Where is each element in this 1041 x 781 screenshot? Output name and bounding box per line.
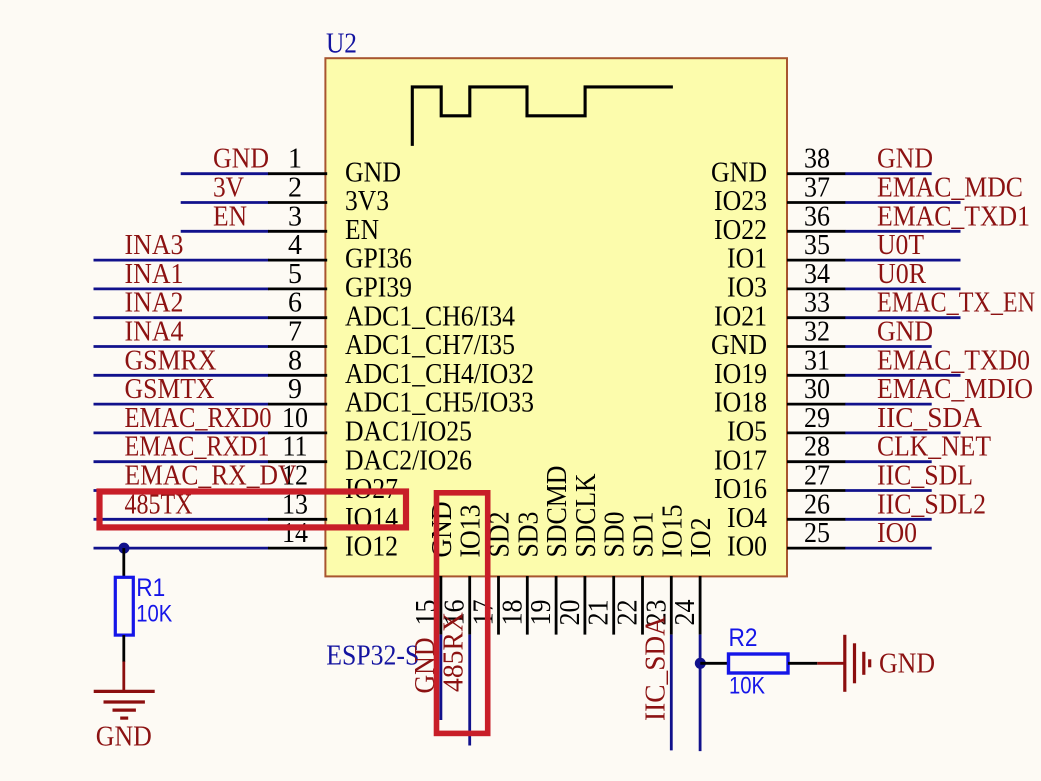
svg-text:ADC1_CH5/IO33: ADC1_CH5/IO33	[345, 388, 534, 419]
highlight box around 485TX / pin13 / IO14	[100, 492, 407, 528]
svg-text:IIC_SDL2: IIC_SDL2	[877, 489, 986, 520]
pin 32 stub	[787, 345, 846, 348]
pin 6 stub	[268, 316, 327, 319]
svg-text:EMAC_TXD0: EMAC_TXD0	[877, 345, 1030, 376]
pin 20 stub	[584, 576, 587, 635]
wire net EMAC_RXD1 (left pin 11)	[94, 460, 269, 463]
svg-text:SDCLK: SDCLK	[571, 474, 602, 558]
wire net EMAC_MDIO (right pin 30)	[845, 403, 931, 406]
svg-text:27: 27	[804, 461, 830, 492]
svg-text:IO0: IO0	[877, 518, 917, 549]
svg-text:IIC_SDA: IIC_SDA	[877, 403, 983, 434]
svg-text:SDCMD: SDCMD	[542, 466, 573, 558]
pin 22 stub	[641, 576, 644, 635]
svg-text:GPI36: GPI36	[345, 244, 412, 275]
wire net EMAC_TXD1 (right pin 36)	[845, 230, 960, 233]
svg-text:14: 14	[282, 518, 308, 549]
pin 23 stub	[670, 576, 673, 635]
wire net GSMRX (left pin 8)	[94, 374, 269, 377]
svg-text:IO19: IO19	[714, 359, 767, 390]
svg-text:SD0: SD0	[600, 512, 631, 558]
svg-text:10K: 10K	[729, 672, 765, 699]
svg-text:IO18: IO18	[714, 388, 767, 419]
pin 18 stub	[526, 576, 529, 635]
wire net 485TX (left pin 13)	[94, 518, 269, 521]
svg-text:31: 31	[804, 345, 830, 376]
svg-text:DAC2/IO26: DAC2/IO26	[345, 445, 472, 476]
wire R1 to ground	[122, 635, 125, 662]
svg-text:GSMTX: GSMTX	[125, 374, 215, 405]
wire net GSMTX (left pin 9)	[94, 403, 269, 406]
svg-text:36: 36	[804, 201, 830, 232]
svg-text:GND: GND	[877, 317, 933, 348]
pin 31 stub	[787, 374, 846, 377]
svg-text:GPI39: GPI39	[345, 273, 412, 304]
wire net pin14 pull-down (left pin 14)	[94, 547, 269, 550]
wire net U0T (right pin 35)	[845, 259, 960, 262]
wire net CLK_NET (right pin 28)	[845, 460, 931, 463]
svg-text:35: 35	[804, 230, 830, 261]
svg-text:33: 33	[804, 288, 830, 319]
pin 35 stub	[787, 259, 846, 262]
pin 15 stub	[439, 576, 442, 635]
svg-text:IO23: IO23	[714, 186, 767, 217]
pin 30 stub	[787, 403, 846, 406]
wire net GND (right pin 32)	[845, 345, 931, 348]
pin 2 stub	[268, 201, 327, 204]
wire (bottom pin 24)	[699, 635, 702, 752]
svg-text:IO0: IO0	[727, 532, 767, 563]
svg-text:EMAC_RXD1: EMAC_RXD1	[125, 432, 270, 463]
svg-text:IO21: IO21	[714, 301, 767, 332]
resistor R2	[729, 654, 789, 673]
svg-text:GND: GND	[711, 157, 767, 188]
svg-text:IO4: IO4	[727, 503, 767, 534]
svg-text:EMAC_MDC: EMAC_MDC	[877, 173, 1023, 204]
svg-text:IO5: IO5	[727, 417, 767, 448]
svg-text:ADC1_CH6/I34: ADC1_CH6/I34	[345, 301, 515, 332]
svg-text:4: 4	[288, 230, 302, 261]
svg-text:GSMRX: GSMRX	[125, 345, 217, 376]
svg-text:EMAC_TX_EN: EMAC_TX_EN	[877, 288, 1035, 319]
svg-text:20: 20	[555, 600, 586, 626]
svg-text:IO16: IO16	[714, 474, 767, 505]
pin 9 stub	[268, 403, 327, 406]
svg-text:2: 2	[288, 173, 302, 204]
pin 27 stub	[787, 489, 846, 492]
svg-text:DAC1/IO25: DAC1/IO25	[345, 417, 472, 448]
wire ground lead right (dark red)	[817, 662, 845, 665]
svg-text:IO15: IO15	[657, 505, 688, 558]
wire net INA2 (left pin 6)	[94, 316, 269, 319]
svg-text:U2: U2	[326, 29, 357, 60]
wire net GND (left pin 1)	[181, 172, 269, 175]
wire net GND (right pin 38)	[845, 172, 931, 175]
svg-text:R2: R2	[729, 624, 758, 652]
wire junction to R1	[122, 548, 125, 578]
svg-text:21: 21	[584, 600, 615, 626]
svg-text:ADC1_CH7/I35: ADC1_CH7/I35	[345, 330, 515, 361]
wire net EN (left pin 3)	[181, 230, 269, 233]
svg-text:10: 10	[282, 403, 308, 434]
svg-text:10K: 10K	[136, 601, 172, 628]
svg-text:485RX: 485RX	[439, 612, 470, 692]
svg-text:EMAC_RX_DV: EMAC_RX_DV	[125, 461, 297, 492]
svg-text:U0R: U0R	[877, 259, 926, 290]
pin 13 stub	[268, 518, 327, 521]
pin 24 stub	[699, 576, 702, 635]
svg-text:19: 19	[526, 600, 557, 626]
pin 1 stub	[268, 172, 327, 175]
svg-text:IO3: IO3	[727, 273, 767, 304]
wire net IIC_SDL2 (right pin 26)	[845, 518, 931, 521]
pin 17 stub	[497, 576, 500, 635]
pin 8 stub	[268, 374, 327, 377]
svg-text:EN: EN	[345, 215, 379, 246]
pin 26 stub	[787, 518, 846, 521]
svg-text:1: 1	[288, 144, 302, 175]
pin 11 stub	[268, 460, 327, 463]
pin 36 stub	[787, 230, 846, 233]
svg-text:ESP32-S: ESP32-S	[326, 641, 419, 672]
svg-text:SD1: SD1	[629, 512, 660, 558]
wire net EMAC_TXD0 (right pin 31)	[845, 374, 960, 377]
wire net IIC_SDL (right pin 27)	[845, 489, 931, 492]
antenna zig-zag symbol inside U2	[412, 87, 673, 146]
pin 29 stub	[787, 431, 846, 434]
svg-text:11: 11	[283, 432, 308, 463]
wire junction to R2	[700, 662, 729, 665]
svg-text:GND: GND	[213, 144, 269, 175]
wire net EMAC_TX_EN (right pin 33)	[845, 316, 960, 319]
pin 16 stub	[468, 576, 471, 635]
svg-text:17: 17	[469, 600, 500, 626]
pin 5 stub	[268, 287, 327, 290]
svg-text:INA3: INA3	[125, 230, 184, 261]
wire net EMAC_RXD0 (left pin 10)	[94, 431, 269, 434]
svg-text:ADC1_CH4/IO32: ADC1_CH4/IO32	[345, 359, 534, 390]
svg-text:37: 37	[804, 173, 830, 204]
svg-text:30: 30	[804, 374, 830, 405]
wire net U0R (right pin 34)	[845, 287, 960, 290]
svg-text:IIC_SDA: IIC_SDA	[640, 615, 671, 721]
svg-text:IO13: IO13	[456, 505, 487, 558]
svg-text:EN: EN	[213, 201, 247, 232]
svg-text:EMAC_RXD0: EMAC_RXD0	[125, 403, 272, 434]
svg-text:9: 9	[288, 374, 302, 405]
svg-text:IO2: IO2	[686, 518, 717, 558]
junction node (pin 24 / R2)	[695, 658, 706, 669]
resistor R1	[115, 577, 133, 635]
wire (bottom pin 16)	[468, 635, 471, 746]
pin 34 stub	[787, 287, 846, 290]
svg-text:INA2: INA2	[125, 288, 184, 319]
pin 10 stub	[268, 431, 327, 434]
svg-text:29: 29	[804, 403, 830, 434]
svg-text:GND: GND	[877, 144, 933, 175]
svg-text:28: 28	[804, 432, 830, 463]
wire net INA4 (left pin 7)	[94, 345, 269, 348]
wire net 3V (left pin 2)	[181, 201, 269, 204]
svg-text:GND: GND	[96, 721, 152, 752]
svg-text:38: 38	[804, 144, 830, 175]
svg-text:8: 8	[288, 345, 302, 376]
svg-text:EMAC_TXD1: EMAC_TXD1	[877, 201, 1030, 232]
pin 28 stub	[787, 460, 846, 463]
pin 37 stub	[787, 201, 846, 204]
svg-text:34: 34	[804, 259, 830, 290]
svg-text:22: 22	[613, 600, 644, 626]
pin 38 stub	[787, 172, 846, 175]
svg-text:INA1: INA1	[125, 259, 184, 290]
svg-text:6: 6	[288, 288, 302, 319]
svg-text:INA4: INA4	[125, 317, 184, 348]
svg-text:25: 25	[804, 518, 830, 549]
svg-text:GND: GND	[345, 157, 401, 188]
svg-text:R1: R1	[136, 574, 165, 602]
wire (bottom pin 15)	[439, 635, 442, 720]
svg-text:3V3: 3V3	[345, 186, 389, 217]
svg-text:18: 18	[497, 600, 528, 626]
wire net INA3 (left pin 4)	[94, 259, 269, 262]
highlight box around GND / IO13 bottom pins	[437, 493, 488, 734]
pin 3 stub	[268, 230, 327, 233]
junction node (pin 14 / R1)	[119, 543, 130, 554]
pin 7 stub	[268, 345, 327, 348]
svg-text:3: 3	[288, 201, 302, 232]
wire (bottom pin 23)	[670, 635, 673, 751]
ground symbol GND (below R1)	[94, 691, 155, 718]
pin 25 stub	[787, 547, 846, 550]
wire ground lead (dark red)	[122, 662, 125, 691]
svg-text:IO17: IO17	[714, 445, 767, 476]
svg-text:GND: GND	[427, 502, 458, 558]
svg-text:24: 24	[670, 600, 701, 626]
svg-text:U0T: U0T	[877, 230, 924, 261]
pin 19 stub	[555, 576, 558, 635]
svg-text:IO1: IO1	[727, 244, 767, 275]
pin 33 stub	[787, 316, 846, 319]
wire net EMAC_RX_DV (left pin 12)	[94, 489, 269, 492]
svg-text:CLK_NET: CLK_NET	[877, 432, 991, 463]
pin 21 stub	[612, 576, 615, 635]
pin 4 stub	[268, 259, 327, 262]
svg-text:IIC_SDL: IIC_SDL	[877, 461, 973, 492]
wire net INA1 (left pin 5)	[94, 287, 269, 290]
svg-text:EMAC_MDIO: EMAC_MDIO	[877, 374, 1033, 405]
svg-text:7: 7	[288, 317, 302, 348]
pin 14 stub	[268, 547, 327, 550]
svg-text:SD3: SD3	[513, 512, 544, 558]
wire net EMAC_MDC (right pin 37)	[845, 201, 960, 204]
svg-text:3V: 3V	[213, 173, 244, 204]
ground symbol GND (right of R2)	[845, 635, 870, 692]
svg-text:26: 26	[804, 489, 830, 520]
svg-text:GND: GND	[879, 648, 935, 679]
pin 12 stub	[268, 489, 327, 492]
op-chip U2 body (ESP32 module)	[325, 58, 787, 576]
svg-text:IO22: IO22	[714, 215, 767, 246]
wire R2 to ground	[788, 662, 817, 665]
svg-text:32: 32	[804, 317, 830, 348]
svg-text:IO12: IO12	[345, 532, 398, 563]
wire net IO0 (right pin 25)	[845, 547, 931, 550]
svg-text:5: 5	[288, 259, 302, 290]
wire net IIC_SDA (right pin 29)	[845, 431, 960, 434]
svg-text:GND: GND	[711, 330, 767, 361]
